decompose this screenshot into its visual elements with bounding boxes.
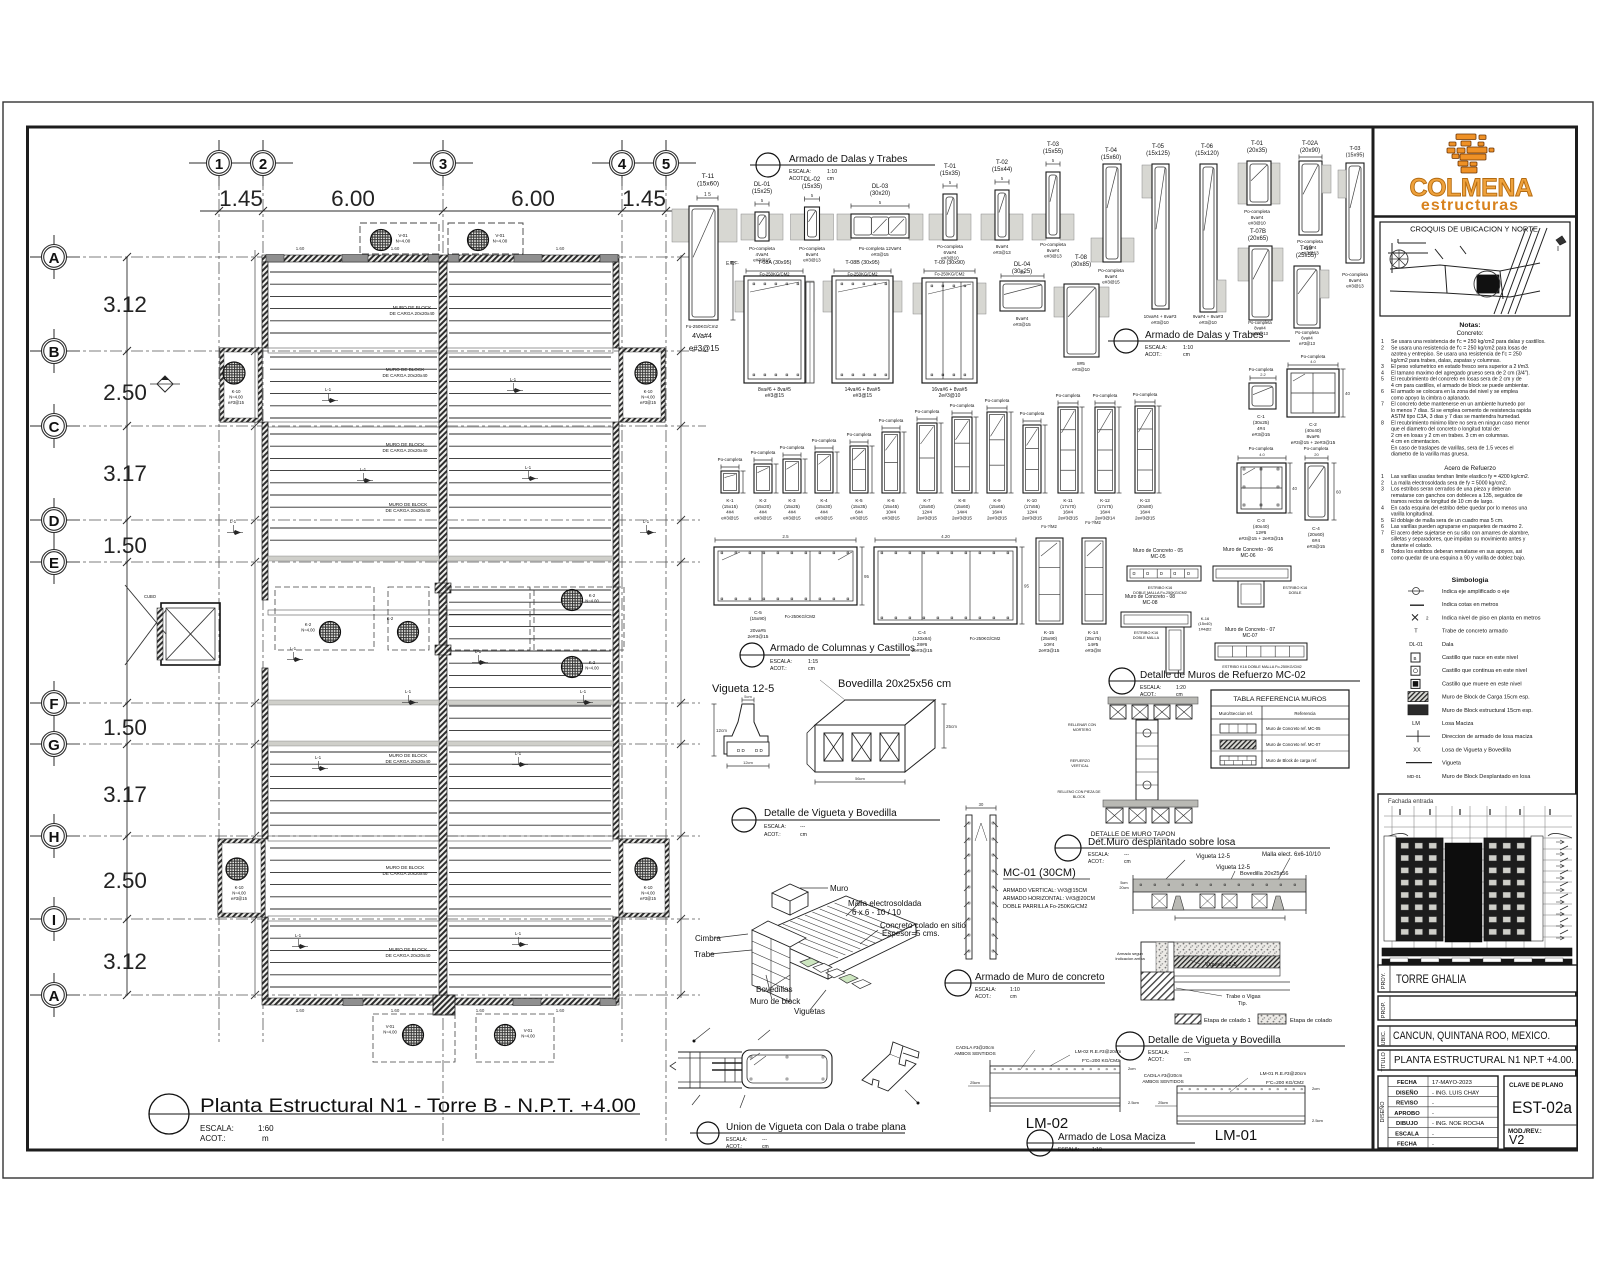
svg-text:Losa de Vigueta y Bovedilla: Losa de Vigueta y Bovedilla xyxy=(1442,747,1512,753)
svg-text:2e#3@15: 2e#3@15 xyxy=(987,515,1007,520)
svg-text:Muro de Concreto - 06: Muro de Concreto - 06 xyxy=(1223,547,1273,553)
svg-text:Dala: Dala xyxy=(1442,642,1454,648)
svg-text:(15x60): (15x60) xyxy=(1101,155,1121,161)
svg-text:T-08B (30x95): T-08B (30x95) xyxy=(845,260,879,266)
svg-text:silletas y separadores, que im: silletas y separadores, que impidan su m… xyxy=(1391,537,1526,543)
svg-text:4 cm en cimentacion.: 4 cm en cimentacion. xyxy=(1391,439,1440,445)
svg-text:25cm: 25cm xyxy=(1158,1100,1168,1105)
svg-text:DE CARGA 20x20x40: DE CARGA 20x20x40 xyxy=(390,311,435,316)
grid bubble A row xyxy=(30,994,80,996)
svg-text:V-01: V-01 xyxy=(495,233,505,238)
svg-text:Trabe o Vigas: Trabe o Vigas xyxy=(1226,994,1261,1000)
union de vigueta con dala xyxy=(678,1051,742,1053)
svg-text:e#3@15: e#3@15 xyxy=(640,400,657,405)
wing column circle xyxy=(223,362,245,384)
svg-text:Malla electrosoldada: Malla electrosoldada xyxy=(848,899,922,908)
svg-text:T-05: T-05 xyxy=(1152,144,1165,150)
data table xyxy=(1378,1076,1498,1148)
svg-text:---: --- xyxy=(1184,1050,1189,1056)
muro tapon detail xyxy=(1108,697,1198,704)
svg-text:10#4: 10#4 xyxy=(886,510,897,515)
svg-text:20: 20 xyxy=(1314,452,1319,457)
svg-text:PROY.: PROY. xyxy=(1381,972,1387,989)
iso block wall xyxy=(752,921,806,1002)
prop row xyxy=(1378,996,1577,1020)
svg-text:ESTRIBO K16: ESTRIBO K16 xyxy=(1148,586,1172,590)
svg-text:L-1: L-1 xyxy=(525,465,532,470)
svg-text:2cm: 2cm xyxy=(1312,1086,1320,1091)
svg-text:RELLENAR CON: RELLENAR CON xyxy=(1068,723,1096,727)
svg-text:8va#4: 8va#4 xyxy=(1251,215,1264,220)
landing column circles xyxy=(320,622,341,643)
svg-text:MURO DE BLOCK: MURO DE BLOCK xyxy=(389,502,428,507)
wing walls xyxy=(619,348,665,422)
svg-text:9va#4 + 8va#3: 9va#4 + 8va#3 xyxy=(1193,314,1224,319)
svg-text:(20x80): (20x80) xyxy=(1137,504,1153,509)
svg-text:Vigueta 12-5: Vigueta 12-5 xyxy=(712,683,774,695)
svg-text:ACOT.:: ACOT.: xyxy=(770,666,787,672)
svg-text:REFUERZO: REFUERZO xyxy=(1070,759,1090,763)
svg-text:ESCALA:: ESCALA: xyxy=(1145,345,1167,351)
svg-text:5cm: 5cm xyxy=(1120,881,1127,885)
svg-text:(40x40): (40x40) xyxy=(1305,428,1322,434)
EC strip xyxy=(806,282,814,383)
svg-text:K-2: K-2 xyxy=(305,622,312,627)
svg-text:K-10: K-10 xyxy=(232,389,242,394)
svg-text:1: 1 xyxy=(1381,339,1384,345)
vigueta 3d xyxy=(862,1054,916,1091)
top dimension chain xyxy=(200,210,680,212)
svg-text:10#4: 10#4 xyxy=(1044,642,1055,648)
svg-text:e#3@15: e#3@15 xyxy=(1013,322,1031,327)
elevation C-5 xyxy=(715,539,856,541)
etapa de colado legend xyxy=(1175,1014,1201,1024)
svg-text:K-2: K-2 xyxy=(589,593,596,598)
svg-text:ESCALA:: ESCALA: xyxy=(1148,1050,1169,1056)
svg-text:8va#6 + 8va#5: 8va#6 + 8va#5 xyxy=(758,387,791,393)
svg-text:MD-01: MD-01 xyxy=(1407,774,1421,779)
svg-text:60: 60 xyxy=(1336,490,1342,495)
svg-text:4.20: 4.20 xyxy=(941,534,950,539)
svg-text:Notas:: Notas: xyxy=(1459,322,1480,329)
svg-text:e#3@15: e#3@15 xyxy=(721,515,739,520)
svg-text:ACOT.:: ACOT.: xyxy=(1088,859,1104,865)
top wall segment xyxy=(342,255,368,263)
title armado de muro de concreto xyxy=(945,970,971,996)
svg-text:C-3: C-3 xyxy=(1257,518,1265,524)
svg-text:Se usara una resistencia de f': Se usara una resistencia de f'c = 250 kg… xyxy=(1391,339,1546,345)
svg-text:-: - xyxy=(1432,1142,1434,1148)
svg-text:Po-completa: Po-completa xyxy=(879,418,904,423)
svg-text:G: G xyxy=(48,737,60,754)
svg-text:Indica cotas en metros: Indica cotas en metros xyxy=(1442,602,1498,608)
svg-text:V-01: V-01 xyxy=(398,233,408,238)
svg-text:E.C.: E.C. xyxy=(730,260,739,265)
svg-text:T-03: T-03 xyxy=(1047,142,1060,148)
svg-text:1.60: 1.60 xyxy=(296,246,305,251)
proy row xyxy=(1378,965,1577,992)
svg-text:(15x20): (15x20) xyxy=(755,504,771,509)
svg-text:(15x60): (15x60) xyxy=(954,504,970,509)
svg-text:ESTRIBO K16: ESTRIBO K16 xyxy=(1134,631,1158,635)
svg-text:(15x35): (15x35) xyxy=(802,184,822,190)
svg-text:PROP.: PROP. xyxy=(1381,1001,1387,1018)
svg-text:DL-01: DL-01 xyxy=(1409,642,1423,648)
svg-text:16va#6 + 8va#5: 16va#6 + 8va#5 xyxy=(932,387,968,393)
svg-text:CLAVE DE PLANO: CLAVE DE PLANO xyxy=(1509,1082,1563,1089)
svg-text:(17x75): (17x75) xyxy=(1097,504,1113,509)
title union vigueta xyxy=(697,1122,719,1144)
svg-text:K-15: K-15 xyxy=(1044,630,1054,636)
svg-text:D: D xyxy=(49,513,60,530)
svg-text:5: 5 xyxy=(1381,377,1384,383)
svg-text:DL-04: DL-04 xyxy=(1014,262,1031,268)
spine nodes xyxy=(435,583,451,593)
svg-text:10va#4 + 8va#3: 10va#4 + 8va#3 xyxy=(1144,314,1177,319)
svg-text:MC-08: MC-08 xyxy=(1142,600,1157,606)
svg-text:ASTM tipo C3A, 3 dias y 7 dias: ASTM tipo C3A, 3 dias y 7 dias se manten… xyxy=(1391,414,1520,420)
plan column circle top 1 xyxy=(371,230,392,251)
top wall segment xyxy=(514,255,542,263)
svg-text:3: 3 xyxy=(439,156,447,173)
svg-text:Bovedilla 20x25x56: Bovedilla 20x25x56 xyxy=(1240,871,1289,877)
svg-text:durante el colado.: durante el colado. xyxy=(1391,543,1432,549)
svg-text:12#4: 12#4 xyxy=(922,510,933,515)
svg-text:cm: cm xyxy=(800,832,807,838)
svg-text:C-2: C-2 xyxy=(1309,422,1317,428)
svg-text:I: I xyxy=(52,912,56,929)
svg-text:XX: XX xyxy=(1413,747,1421,753)
svg-text:T-01: T-01 xyxy=(1251,141,1264,147)
svg-text:K-2: K-2 xyxy=(387,616,394,621)
svg-text:e#3@10: e#3@10 xyxy=(1151,320,1169,325)
svg-text:BLOCK: BLOCK xyxy=(1073,795,1086,799)
svg-text:1:10: 1:10 xyxy=(1092,1147,1102,1153)
svg-text:1:15: 1:15 xyxy=(808,659,818,665)
bottom losa boxes xyxy=(373,1014,455,1062)
svg-text:Muro de Block de Carga 15cm es: Muro de Block de Carga 15cm esp. xyxy=(1442,695,1530,701)
svg-text:14va#6 + 8va#5: 14va#6 + 8va#5 xyxy=(845,387,881,393)
svg-text:UBIC.: UBIC. xyxy=(1381,1030,1387,1045)
svg-text:e#3@15: e#3@15 xyxy=(871,252,889,257)
svg-text:2: 2 xyxy=(259,156,267,173)
svg-text:Trabe: Trabe xyxy=(694,950,715,959)
svg-text:K-2: K-2 xyxy=(759,498,767,503)
svg-text:-: - xyxy=(1432,1111,1434,1117)
grid axis lines horizontal xyxy=(68,256,700,258)
logo colmena xyxy=(1456,134,1476,140)
svg-text:95: 95 xyxy=(1024,584,1030,589)
svg-text:40: 40 xyxy=(1292,486,1298,491)
svg-text:1:10: 1:10 xyxy=(1010,987,1020,993)
svg-text:ESCALA:: ESCALA: xyxy=(789,169,811,175)
svg-text:Los estribos seran cerrados de: Los estribos seran cerrados de una pieza… xyxy=(1391,487,1511,493)
svg-text:FECHA: FECHA xyxy=(1397,1142,1418,1148)
svg-text:Las varillas pueden agruparse: Las varillas pueden agruparse en paquete… xyxy=(1391,524,1523,530)
svg-text:(15x44): (15x44) xyxy=(992,167,1012,173)
svg-text:- ING. LUIS CHAY: - ING. LUIS CHAY xyxy=(1432,1090,1479,1096)
svg-text:12#4: 12#4 xyxy=(1027,510,1038,515)
svg-text:Las varillas usadas tendran li: Las varillas usadas tendran limite elast… xyxy=(1391,474,1529,480)
svg-text:APROBO: APROBO xyxy=(1394,1111,1420,1117)
clave box xyxy=(1504,1076,1577,1148)
svg-text:28#6: 28#6 xyxy=(917,642,928,648)
svg-text:16#4: 16#4 xyxy=(1063,510,1074,515)
svg-text:4.0: 4.0 xyxy=(1259,452,1265,457)
svg-text:LM: LM xyxy=(1412,721,1420,727)
svg-text:Losa Maciza: Losa Maciza xyxy=(1442,721,1474,727)
svg-text:A: A xyxy=(49,250,60,267)
svg-text:T-08A (30x95): T-08A (30x95) xyxy=(758,260,792,266)
svg-text:LM-01: LM-01 xyxy=(1215,1127,1258,1144)
iso top block xyxy=(772,884,808,915)
svg-text:que el diametro del concreto o: que el diametro del concreto o longitud … xyxy=(1391,427,1500,433)
svg-text:3.12: 3.12 xyxy=(103,949,147,974)
svg-text:95: 95 xyxy=(864,574,870,579)
svg-text:2e#3@15: 2e#3@15 xyxy=(1039,648,1060,654)
svg-text:ESCALA: ESCALA xyxy=(1395,1131,1420,1137)
title detalle vigueta 2 xyxy=(1116,1032,1144,1060)
svg-text:Viguetas: Viguetas xyxy=(794,1007,825,1016)
landing dashed boxes xyxy=(275,587,374,650)
svg-text:K-6: K-6 xyxy=(887,498,895,503)
svg-text:3: 3 xyxy=(1381,487,1384,493)
elevator shaft xyxy=(161,603,220,665)
svg-text:Po-completa: Po-completa xyxy=(1304,446,1329,451)
interior wall rows xyxy=(268,348,439,353)
svg-text:D D: D D xyxy=(755,748,764,753)
svg-text:5: 5 xyxy=(662,156,670,173)
grid bubble 2 xyxy=(233,162,293,164)
svg-text:El peso volumetrico en estado: El peso volumetrico en estado fresco ser… xyxy=(1391,364,1529,370)
svg-text:1.50: 1.50 xyxy=(103,715,147,740)
svg-text:N=4.00: N=4.00 xyxy=(301,627,315,632)
svg-text:El recubrimiento minimo libre: El recubrimiento minimo libre no sera en… xyxy=(1391,420,1530,426)
svg-text:e#3@15 + 2e#3@15: e#3@15 + 2e#3@15 xyxy=(1239,536,1284,542)
wing column circle xyxy=(635,858,657,880)
elevation C-4w xyxy=(875,539,1016,541)
svg-text:e#3@15: e#3@15 xyxy=(640,896,657,901)
svg-text:12cm: 12cm xyxy=(743,760,753,765)
svg-text:(20x60): (20x60) xyxy=(1308,532,1325,538)
svg-text:Todos los estribos deberan rem: Todos los estribos deberan rematarse en … xyxy=(1391,549,1522,555)
svg-text:DOBLE MALLA: DOBLE MALLA xyxy=(1133,636,1160,640)
svg-text:MC-07: MC-07 xyxy=(1242,633,1257,639)
svg-text:Muro: Muro xyxy=(830,884,849,893)
svg-text:40: 40 xyxy=(1345,391,1351,396)
grid bubble I row xyxy=(30,918,80,920)
svg-text:LM-01 R.E.#3@20cm: LM-01 R.E.#3@20cm xyxy=(1260,1071,1306,1077)
svg-text:ESCALA:: ESCALA: xyxy=(1058,1147,1079,1153)
wing walls xyxy=(218,839,265,917)
svg-text:1.60: 1.60 xyxy=(391,246,400,251)
svg-text:cm: cm xyxy=(762,1144,769,1150)
svg-text:4#4: 4#4 xyxy=(820,510,828,515)
svg-text:ESCALA:: ESCALA: xyxy=(726,1137,747,1143)
svg-text:Po-completa: Po-completa xyxy=(1133,392,1158,397)
title armado de losa maciza xyxy=(1027,1130,1053,1156)
top wall segment xyxy=(266,255,284,263)
svg-text:Castillo que muere en este niv: Castillo que muere en este nivel xyxy=(1442,681,1522,687)
svg-text:Fo-250KG/Cm2: Fo-250KG/Cm2 xyxy=(686,324,719,329)
svg-text:Armado de Dalas y Trabes: Armado de Dalas y Trabes xyxy=(789,154,907,165)
svg-text:1.45: 1.45 xyxy=(219,186,263,211)
svg-text:MC-05: MC-05 xyxy=(1150,554,1165,560)
right dim line x681 xyxy=(680,255,682,998)
svg-text:T-02: T-02 xyxy=(996,160,1009,166)
svg-text:6Va#4: 6Va#4 xyxy=(944,250,957,255)
svg-text:K-10: K-10 xyxy=(235,885,245,890)
svg-text:K-1: K-1 xyxy=(726,498,734,503)
svg-text:Referencia: Referencia xyxy=(1294,711,1316,716)
svg-text:Po-completa: Po-completa xyxy=(1244,209,1270,214)
svg-text:12#6: 12#6 xyxy=(1256,530,1267,536)
svg-text:Po-completa: Po-completa xyxy=(847,432,872,437)
svg-text:Malla elect. 6x6-10/10: Malla elect. 6x6-10/10 xyxy=(1262,852,1321,858)
svg-text:V2: V2 xyxy=(1509,1133,1524,1147)
svg-text:DL-03: DL-03 xyxy=(872,184,889,190)
svg-text:2e#3@15: 2e#3@15 xyxy=(952,515,972,520)
elevation core xyxy=(1445,843,1482,942)
svg-text:K-12: K-12 xyxy=(1100,498,1110,503)
MC-01 wall detail xyxy=(966,807,996,809)
joist lines right half xyxy=(449,271,611,273)
svg-text:F'C=200 KG/CM2: F'C=200 KG/CM2 xyxy=(1266,1080,1304,1086)
title MC-02 xyxy=(1109,668,1135,694)
svg-text:N=4.00: N=4.00 xyxy=(232,890,246,895)
svg-text:L-1: L-1 xyxy=(515,931,522,936)
svg-text:Po-completa: Po-completa xyxy=(1098,268,1124,273)
svg-text:Po-completa: Po-completa xyxy=(780,445,805,450)
svg-text:T-06: T-06 xyxy=(1201,144,1214,150)
svg-text:4: 4 xyxy=(1381,370,1384,376)
svg-text:C-4: C-4 xyxy=(918,630,926,636)
svg-text:ARMADO HORIZONTAL: V#3@20CM: ARMADO HORIZONTAL: V#3@20CM xyxy=(1003,896,1095,902)
svg-text:ESCALA:: ESCALA: xyxy=(1140,685,1161,691)
svg-text:(15x60): (15x60) xyxy=(697,181,719,188)
title armado de columnas xyxy=(740,643,764,667)
svg-text:azotea y entrepiso. Se usara u: azotea y entrepiso. Se usara una resiste… xyxy=(1391,352,1522,358)
grid bubble G row xyxy=(30,743,80,745)
svg-text:DOBLE: DOBLE xyxy=(1289,591,1302,595)
svg-text:El acero debe sujetarse en su: El acero debe sujetarse en su sitio con … xyxy=(1391,530,1529,536)
svg-text:Union de Vigueta con Dala o tr: Union de Vigueta con Dala o trabe plana xyxy=(726,1122,906,1133)
svg-text:e#3@15: e#3@15 xyxy=(850,515,868,520)
svg-text:6.00: 6.00 xyxy=(331,186,375,211)
bench mark symbol xyxy=(157,376,173,392)
svg-text:6va#4: 6va#4 xyxy=(1301,335,1313,340)
svg-text:K-10: K-10 xyxy=(644,885,654,890)
svg-text:14#4: 14#4 xyxy=(957,510,968,515)
svg-text:(15x25): (15x25) xyxy=(752,189,772,195)
svg-text:3.17: 3.17 xyxy=(103,461,147,486)
svg-text:A: A xyxy=(49,988,60,1005)
svg-text:varilla longitudinal.: varilla longitudinal. xyxy=(1391,512,1434,518)
svg-text:EST-02a: EST-02a xyxy=(1512,1098,1572,1117)
svg-text:N=4.00: N=4.00 xyxy=(396,239,411,244)
svg-text:(40x40): (40x40) xyxy=(1253,524,1270,530)
svg-text:L-1: L-1 xyxy=(405,689,412,694)
svg-text:C: C xyxy=(49,419,60,436)
svg-text:N=4.00: N=4.00 xyxy=(383,1029,397,1034)
svg-text:Fo-250KG/CM2: Fo-250KG/CM2 xyxy=(785,614,816,619)
svg-text:K-4: K-4 xyxy=(820,498,828,503)
svg-text:V-01: V-01 xyxy=(386,1024,395,1029)
svg-text:En cada esquina del estribo de: En cada esquina del estribo debe quedar … xyxy=(1391,505,1527,511)
svg-text:e#3@10: e#3@10 xyxy=(1248,221,1266,226)
svg-text:Det.Muro desplantado sobre los: Det.Muro desplantado sobre losa xyxy=(1088,837,1236,848)
svg-text:N=4.00: N=4.00 xyxy=(493,239,508,244)
svg-text:m: m xyxy=(262,1134,269,1143)
title detalle vigueta y bovedilla xyxy=(732,808,756,832)
svg-text:2e#3@15: 2e#3@15 xyxy=(917,515,937,520)
svg-text:N=4.00: N=4.00 xyxy=(229,394,243,399)
svg-text:1: 1 xyxy=(1381,474,1384,480)
title block divider xyxy=(1372,127,1375,1150)
svg-text:Po-completa: Po-completa xyxy=(1248,320,1272,325)
svg-text:e#3@10: e#3@10 xyxy=(1199,320,1217,325)
svg-text:(15x95): (15x95) xyxy=(1346,153,1365,159)
svg-text:---: --- xyxy=(800,824,805,830)
svg-text:2.50: 2.50 xyxy=(103,380,147,405)
svg-text:3: 3 xyxy=(1381,364,1384,370)
svg-text:Po-completa: Po-completa xyxy=(751,450,776,455)
svg-text:Po-completa: Po-completa xyxy=(1342,272,1368,277)
svg-text:(15x125): (15x125) xyxy=(1146,151,1170,157)
svg-text:Fo-?/M2: Fo-?/M2 xyxy=(1041,524,1057,529)
svg-text:Po-completa: Po-completa xyxy=(937,244,963,249)
svg-text:1.50: 1.50 xyxy=(103,533,147,558)
svg-text:Bovedilla 20x25x56 cm: Bovedilla 20x25x56 cm xyxy=(838,678,951,690)
svg-text:ESCALA:: ESCALA: xyxy=(764,824,786,830)
svg-text:(17x70): (17x70) xyxy=(1060,504,1076,509)
svg-text:16#4: 16#4 xyxy=(992,510,1003,515)
svg-text:Indicacion arriba: Indicacion arriba xyxy=(1115,956,1145,961)
pour stage detail xyxy=(1141,942,1174,999)
svg-text:e#3@15: e#3@15 xyxy=(853,393,872,399)
isometric floor detail xyxy=(758,896,916,979)
croquis box xyxy=(1380,222,1570,316)
svg-text:2.5cm: 2.5cm xyxy=(1128,1100,1140,1105)
svg-text:8: 8 xyxy=(1381,549,1384,555)
svg-text:30: 30 xyxy=(979,802,984,807)
grid bubble 3 xyxy=(413,162,473,164)
svg-text:Muro/Seccion ref.: Muro/Seccion ref. xyxy=(1219,711,1253,716)
svg-text:RELLENO CON PIEZA DE: RELLENO CON PIEZA DE xyxy=(1058,790,1102,794)
svg-text:2 cm en losas y 2 cm en trabes: 2 cm en losas y 2 cm en trabes. 3 cm en … xyxy=(1391,433,1509,439)
svg-text:Castillo que nace en este nive: Castillo que nace en este nivel xyxy=(1442,655,1518,661)
svg-text:Bovedillas: Bovedillas xyxy=(756,985,792,994)
svg-text:(15x55): (15x55) xyxy=(1043,149,1063,155)
svg-text:8: 8 xyxy=(1381,420,1384,426)
svg-text:(17x55): (17x55) xyxy=(1024,504,1040,509)
svg-text:16#4: 16#4 xyxy=(1140,510,1151,515)
svg-text:1.60: 1.60 xyxy=(391,1008,400,1013)
section title bubble xyxy=(756,153,780,177)
svg-text:16#4: 16#4 xyxy=(1100,510,1111,515)
svg-text:Po-completa: Po-completa xyxy=(799,246,825,251)
svg-text:ACOT.:: ACOT.: xyxy=(1148,1057,1164,1063)
svg-text:estructuras: estructuras xyxy=(1421,197,1519,214)
svg-text:Muro de Concreto - 05: Muro de Concreto - 05 xyxy=(1133,548,1183,554)
svg-text:B: B xyxy=(49,344,60,361)
svg-text:Armado de Dalas y Trabes: Armado de Dalas y Trabes xyxy=(1145,330,1263,341)
svg-text:Po-completa 12Va#4: Po-completa 12Va#4 xyxy=(859,246,902,251)
svg-text:8#5: 8#5 xyxy=(1077,361,1085,366)
sheet inner frame xyxy=(28,127,1577,1150)
bottom wall segment xyxy=(343,999,363,1006)
svg-text:4#4: 4#4 xyxy=(788,510,796,515)
